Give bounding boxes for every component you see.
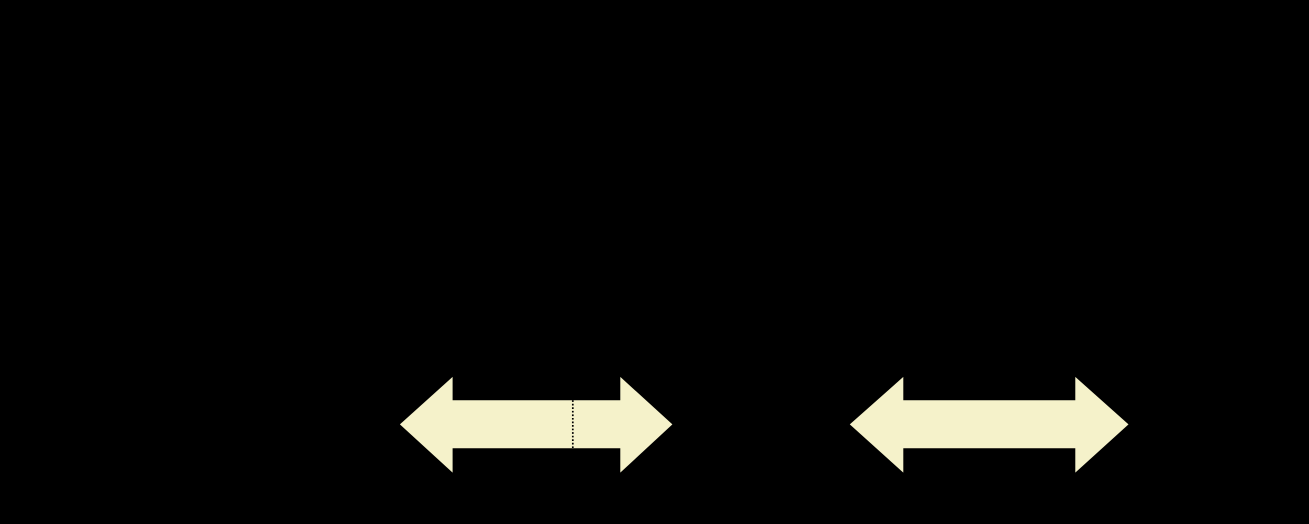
double arrow right bbox=[850, 377, 1129, 473]
double arrow left bbox=[400, 377, 673, 473]
dotted divider line bbox=[572, 400, 574, 448]
